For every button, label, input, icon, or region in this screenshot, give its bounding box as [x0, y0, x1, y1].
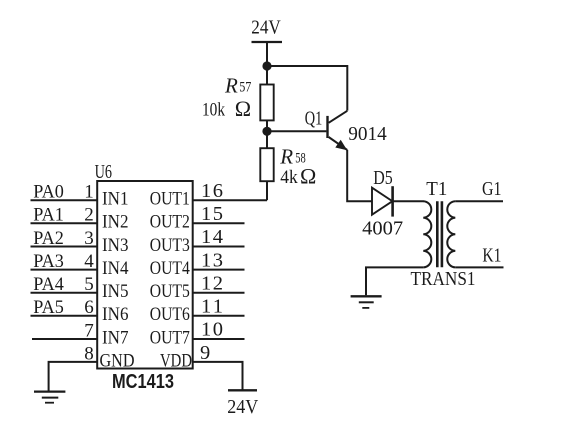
wire base junction B to Q1 [267, 130, 326, 132]
svg-text:IN6: IN6 [102, 304, 129, 325]
svg-text:57: 57 [239, 80, 251, 96]
svg-text:2: 2 [84, 205, 94, 226]
svg-text:K1: K1 [482, 245, 501, 267]
wire pin 11 right [193, 315, 245, 317]
svg-text:PA0: PA0 [33, 182, 64, 203]
svg-text:7: 7 [84, 320, 94, 341]
svg-text:T1: T1 [426, 178, 447, 200]
wire primary bottom to ground [366, 267, 423, 295]
svg-text:9014: 9014 [348, 123, 387, 145]
svg-text:12: 12 [201, 272, 223, 294]
ground (transformer) [351, 296, 382, 308]
svg-text:OUT2: OUT2 [150, 212, 190, 233]
transformer T1 core [436, 201, 439, 267]
resistor R58 [260, 148, 273, 181]
svg-text:IN3: IN3 [102, 235, 129, 256]
wire D5 cathode to transformer [393, 200, 424, 202]
wire pin 6 left [31, 315, 98, 317]
svg-text:IN5: IN5 [102, 281, 129, 302]
wire pin 3 left [31, 246, 98, 248]
svg-text:15: 15 [201, 203, 223, 225]
wire pin 13 right [193, 269, 245, 271]
svg-text:Q1: Q1 [305, 107, 323, 129]
svg-text:IN4: IN4 [102, 258, 129, 279]
wire Q1 emitter down and to diode [347, 150, 372, 201]
wire pin 14 right [193, 246, 245, 248]
svg-text:MC1413: MC1413 [112, 371, 174, 393]
svg-text:5: 5 [84, 274, 94, 295]
svg-text:OUT3: OUT3 [150, 235, 190, 256]
wire pin 5 left [31, 292, 98, 294]
node junction B (R57 / R58 / base) [262, 127, 271, 136]
svg-text:PA2: PA2 [33, 228, 64, 249]
transistor Q1 [326, 111, 347, 150]
svg-text:4: 4 [84, 251, 94, 272]
svg-text:IN7: IN7 [102, 327, 129, 348]
svg-text:11: 11 [201, 296, 223, 318]
svg-text:13: 13 [201, 249, 223, 271]
svg-text:U6: U6 [95, 161, 112, 183]
svg-text:TRANS1: TRANS1 [411, 268, 476, 290]
svg-text:GND: GND [100, 350, 135, 371]
svg-text:3: 3 [84, 228, 94, 249]
transformer T1 secondary winding [447, 201, 455, 267]
svg-text:IN1: IN1 [102, 189, 129, 210]
svg-text:OUT5: OUT5 [150, 281, 190, 302]
ground (IC pin 8) [34, 392, 65, 403]
wire pin 4 left [31, 269, 98, 271]
svg-text:4007: 4007 [362, 218, 403, 240]
svg-text:Ω: Ω [300, 163, 316, 188]
svg-text:Ω: Ω [235, 96, 251, 121]
svg-text:R: R [224, 74, 238, 98]
wire pin 16 right to R58 [193, 199, 267, 201]
node junction A (24V rail / R57 / collector branch) [262, 61, 271, 70]
wire pin 10 right [193, 338, 245, 340]
svg-text:PA5: PA5 [33, 297, 64, 318]
wire secondary top to G1 [455, 200, 503, 202]
wire pin 7 left [32, 338, 97, 340]
svg-text:D5: D5 [373, 167, 393, 189]
wire pin 1 left [31, 199, 98, 201]
wire pin9 to 24V bottom [193, 362, 243, 390]
svg-text:14: 14 [201, 226, 223, 248]
svg-text:PA3: PA3 [33, 251, 64, 272]
wire pin8 to ground [49, 362, 98, 391]
svg-text:9: 9 [200, 342, 210, 364]
resistor R57 [260, 85, 273, 121]
wire secondary bottom to K1 [455, 266, 503, 268]
svg-text:OUT6: OUT6 [150, 304, 190, 325]
wire R57 to junction B [266, 120, 268, 148]
svg-text:6: 6 [84, 297, 94, 318]
svg-text:R: R [279, 145, 293, 169]
diode D5 [372, 186, 393, 216]
svg-text:PA1: PA1 [33, 205, 64, 226]
power bar 24V top [252, 41, 283, 43]
wire 24V bar to junction [266, 42, 268, 85]
wire junction A to collector corner [267, 66, 347, 111]
wire pin 2 left [31, 222, 98, 224]
svg-text:OUT1: OUT1 [150, 189, 190, 210]
op IC U6 box MC1413 [97, 181, 193, 369]
transformer T1 primary winding [423, 201, 431, 267]
svg-text:G1: G1 [482, 178, 502, 200]
power bar 24V bottom [228, 389, 257, 391]
svg-text:10k: 10k [202, 100, 225, 121]
svg-text:24V: 24V [227, 396, 258, 418]
svg-text:VDD: VDD [160, 350, 192, 371]
svg-text:PA4: PA4 [33, 274, 64, 295]
svg-text:24V: 24V [251, 17, 281, 39]
wire pin 12 right [193, 292, 245, 294]
svg-text:4k: 4k [280, 167, 298, 188]
svg-text:OUT4: OUT4 [150, 258, 190, 279]
wire R58 to OUT1 net [266, 181, 268, 200]
svg-text:OUT7: OUT7 [150, 327, 190, 348]
wire pin 15 right [193, 222, 245, 224]
svg-text:1: 1 [84, 182, 94, 203]
svg-text:IN2: IN2 [102, 212, 129, 233]
svg-text:10: 10 [201, 319, 223, 341]
svg-text:16: 16 [201, 180, 223, 202]
